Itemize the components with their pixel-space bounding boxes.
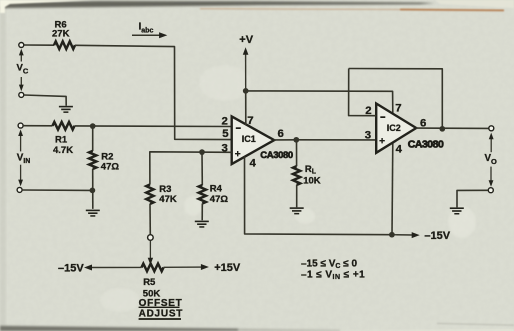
wire +V to IC1 pin 7 [245,91,247,125]
terminal R5 wiper [148,235,154,241]
voltage annotation Vc arrows [19,49,24,91]
wire R3 to R5 wiper [149,204,151,235]
terminal Vc- [19,92,24,97]
junction Vin-/R2/ground [90,188,96,194]
svg-text:R4: R4 [210,184,223,195]
svg-text:+15V: +15V [214,262,241,274]
resistor R3 [146,185,153,204]
op-amp IC1 [232,116,275,164]
voltage annotation Vo arrows [489,133,494,187]
ground (R4) [195,221,209,223]
wire IC1 pin 4 to -15V rail [245,157,392,235]
svg-text:2: 2 [222,115,228,127]
wire R2 top [92,126,94,151]
terminal Vc+ [19,43,24,48]
potentiometer R5 [142,264,164,272]
wire R4 top [201,152,203,185]
wire R1 to IC1 pin 2 [75,125,232,128]
resistor RL [293,166,300,185]
wire RL bottom [296,185,298,207]
resistor R6 [54,41,75,49]
ground (RL) [290,207,304,209]
wire Vo- to ground [457,190,488,207]
wire to IC2 pin 3 [296,139,376,141]
svg-text:3: 3 [365,130,371,142]
svg-text:5: 5 [222,128,229,140]
svg-text:6: 6 [278,128,284,140]
svg-text:ADJUST: ADJUST [139,308,184,319]
svg-text:27K: 27K [52,28,70,39]
svg-text:–15V: –15V [58,262,84,274]
power +V [243,47,249,91]
resistor R1 [53,122,75,130]
svg-text:–15V: –15V [424,230,450,242]
svg-text:10K: 10K [303,176,321,187]
label ADJUST [139,308,184,319]
wire R4 bottom [201,204,203,221]
ground (R2) [86,210,100,212]
svg-text:47Ω: 47Ω [101,161,120,172]
wire R2 bottom [92,169,94,209]
power -15V (pot left) [84,265,142,271]
op-amp IC2 [376,104,416,153]
junction -15V rail [389,232,395,238]
svg-text:7: 7 [395,103,401,115]
wire R6 to IC1 pin 5 [75,45,232,139]
wire Vc+ to R6 [24,44,54,46]
svg-text:–15 ≤ VC ≤ 0: –15 ≤ VC ≤ 0 [301,258,358,270]
power +15V (pot right) [164,264,209,270]
wire IC2 pin 2 [349,69,377,116]
ground (Vo) [450,207,464,209]
terminal Vin+ [18,123,23,128]
wire IC2 output [416,127,489,129]
junction +V rail [243,88,249,94]
wire feedback top [349,69,443,129]
current arrow Iabc [132,32,167,38]
svg-text:R5: R5 [143,277,156,288]
svg-text:CA3080: CA3080 [408,138,444,150]
voltage annotation Vin arrows [18,129,23,186]
wire Vin+ to R1 [23,125,52,127]
svg-text:4: 4 [396,144,403,156]
label OFFSET [139,298,183,309]
wire IC2 pin 4 [391,142,394,235]
junction pin3/R4 [199,149,205,155]
junction IC1 out/RL [293,137,299,143]
wire +V rail to IC2 pin 7 [246,91,393,115]
svg-text:IC2: IC2 [387,123,401,133]
svg-text:4.7K: 4.7K [53,145,73,156]
junction R1/R2 [90,123,96,129]
wire R5 wiper arrow [148,241,153,265]
svg-text:IC1: IC1 [242,134,256,144]
svg-text:7: 7 [247,115,253,127]
terminal Vo- [488,188,493,193]
terminal Vin- [17,187,22,192]
svg-text:CA3080: CA3080 [260,150,293,161]
resistor R4 [199,185,206,203]
svg-text:47K: 47K [159,194,177,205]
svg-text:47Ω: 47Ω [210,194,229,205]
ground (Vc) [59,106,73,108]
junction IC2 out/feedback [439,126,445,132]
wire IC1 pin 3 to R3 [150,152,232,185]
svg-text:4: 4 [250,157,257,169]
wire RL top [296,140,298,167]
wire IC1 output [274,139,297,141]
power -15V arrow [392,232,420,238]
wire Vin- to junction [22,189,92,191]
terminal Vo+ [489,126,494,131]
wire Vc- to ground [24,95,66,106]
resistor R2 [89,151,96,169]
svg-text:+V: +V [239,34,253,46]
